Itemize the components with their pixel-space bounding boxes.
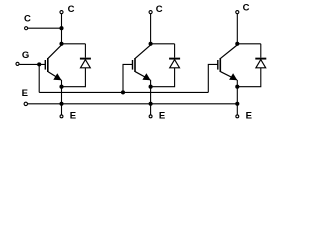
terminal E bottom cell 2 [149,115,152,118]
svg-text:E: E [246,110,252,121]
svg-text:C: C [243,3,250,14]
wire collector vertical cell 2 [150,14,152,44]
transistor Q1 emitter arrow [53,73,61,80]
svg-text:E: E [159,110,165,121]
terminal C top cell 3 [236,11,239,14]
junction emitter node cell 3 [235,85,239,89]
svg-text:E: E [22,88,28,99]
diode D1 anode triangle [81,60,91,68]
wire diode anode to emitter node cell 3 [237,68,260,87]
wire to bottom E terminal cell 3 [236,104,238,115]
diode D2 cathode bar [169,58,180,60]
wire diode cathode drop cell 3 [260,44,262,58]
transistor Q2 body bar [134,58,136,72]
wire to bottom E terminal cell 1 [61,104,63,115]
transistor Q3 emitter lead [221,72,237,80]
junction emitter bus cell 2 [149,102,153,106]
junction gate bus tap cell 2 [121,90,125,94]
wire C1 to collector node [28,27,62,29]
terminal E (left emitter) [24,102,27,105]
wire diode anode to emitter node cell 1 [62,68,86,87]
wire emitter vertical cell 1 [61,80,63,104]
junction emitter node cell 1 [59,85,63,89]
terminal C1 (left collector) [25,27,28,30]
wire gate drop cell 1 [38,64,40,92]
wire diode anode to emitter node cell 2 [151,68,175,87]
terminal G (gate) [16,62,19,65]
transistor Q2 emitter lead [135,72,150,80]
wire collector to diode cell 1 [62,43,86,45]
terminal C top cell 1 [60,11,63,14]
terminal E bottom cell 3 [236,115,239,118]
junction collector node cell 1 [59,26,63,30]
wire diode cathode drop cell 1 [84,44,86,58]
junction collector/diode node cell 3 [235,42,239,46]
junction collector/diode node cell 1 [59,42,63,46]
wire emitter vertical cell 2 [150,80,152,104]
transistor Q3 body bar [219,58,221,72]
transistor Q3 emitter arrow [229,73,237,80]
diode D2 anode triangle [170,60,180,68]
wire collector to diode cell 2 [151,43,175,45]
wire gate riser cell 2 [123,64,133,92]
wire diode cathode drop cell 2 [174,44,176,58]
wire collector to diode cell 3 [237,43,260,45]
transistor Q1 collector lead [48,45,61,58]
wire to bottom E terminal cell 2 [150,104,152,115]
circuit: 3-parallel IGBT module with free-wheel diodes [0,0,307,138]
wire gate riser cell 3 [208,64,218,92]
junction emitter node cell 2 [149,85,153,89]
transistor Q2 gate bar [132,60,134,70]
svg-text:E: E [70,110,76,121]
transistor Q2 emitter arrow [142,73,150,80]
junction emitter bus cell 1 [59,102,63,106]
svg-text:G: G [22,50,29,61]
junction collector/diode node cell 2 [149,42,153,46]
transistor Q1 gate bar [44,60,46,70]
wire emitter bus [28,103,238,105]
transistor Q3 collector lead [221,45,238,58]
wire emitter vertical cell 3 [236,80,238,104]
wire collector vertical cell 3 [236,14,238,44]
svg-text:C: C [156,4,163,15]
transistor Q1 body bar [47,58,49,72]
svg-text:C: C [68,4,75,15]
wire collector vertical cell 1 [61,14,63,44]
terminal E bottom cell 1 [60,115,63,118]
junction gate node cell 1 [37,62,41,66]
diode D1 cathode bar [80,58,91,60]
wire gate bus [39,91,208,93]
junction emitter bus cell 3 [235,102,239,106]
svg-text:C: C [24,14,31,25]
transistor Q1 emitter lead [48,72,61,80]
transistor Q3 gate bar [217,60,219,70]
terminal C top cell 2 [149,11,152,14]
transistor Q2 collector lead [135,45,150,58]
diode D3 cathode bar [255,58,266,60]
diode D3 anode triangle [256,60,266,68]
wire gate lead cell 1 [19,63,45,65]
